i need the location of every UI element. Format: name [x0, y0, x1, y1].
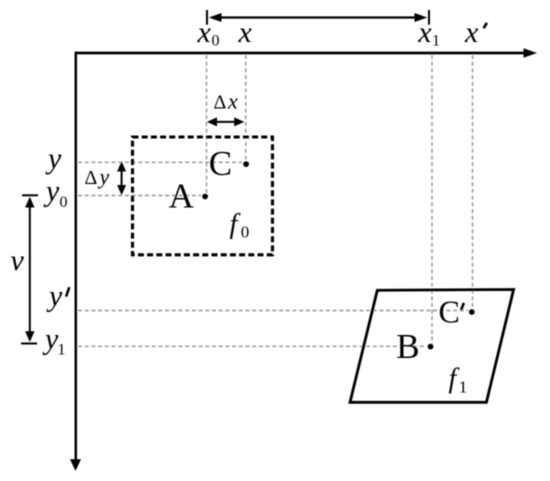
svg-text:1: 1: [432, 33, 440, 50]
svg-text:x: x: [417, 16, 432, 49]
svg-text:B: B: [396, 327, 419, 366]
svg-text:C: C: [439, 294, 460, 330]
svg-text:y: y: [98, 164, 110, 189]
svg-text:0: 0: [60, 194, 68, 211]
svg-text:x: x: [464, 16, 479, 49]
svg-text:x: x: [227, 89, 238, 114]
svg-text:C: C: [209, 144, 232, 183]
svg-text:x: x: [197, 16, 212, 49]
svg-text:Δ: Δ: [85, 167, 98, 189]
svg-text:y: y: [42, 323, 59, 356]
svg-text:x: x: [238, 16, 253, 49]
svg-text:A: A: [169, 177, 195, 216]
svg-text:1: 1: [58, 342, 66, 359]
svg-text:y: y: [43, 175, 60, 208]
svg-text:Δ: Δ: [214, 92, 227, 114]
svg-text:y: y: [45, 142, 62, 175]
svg-text:y: y: [46, 280, 63, 313]
svg-text:v: v: [11, 244, 25, 277]
svg-text:0: 0: [241, 223, 250, 242]
svg-text:0: 0: [212, 33, 220, 50]
svg-text:1: 1: [459, 378, 468, 397]
